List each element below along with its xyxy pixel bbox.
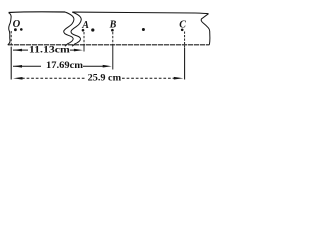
svg-text:17.69cm: 17.69cm	[46, 61, 83, 71]
extension line B upper	[112, 32, 114, 46]
svg-text:B: B	[109, 19, 117, 30]
extension line A upper	[83, 32, 85, 45]
tape break curve 1	[64, 12, 74, 46]
extension line O lower	[10, 47, 12, 80]
dot 6	[142, 28, 145, 31]
extension line A lower	[83, 45, 85, 52]
dim1 right arrow	[70, 49, 75, 51]
dot O	[14, 28, 17, 31]
extension line C upper	[184, 32, 186, 49]
svg-text:O: O	[13, 19, 21, 30]
dot 2	[20, 28, 23, 31]
extension line C lower	[184, 48, 186, 80]
dot A	[82, 29, 85, 32]
dim2 right arrow	[83, 65, 104, 67]
dim1 left arrow	[13, 49, 28, 51]
svg-text:25.9 cm: 25.9 cm	[88, 73, 122, 83]
tape break curve 2	[71, 12, 81, 46]
svg-text:11.13cm: 11.13cm	[29, 45, 70, 55]
dot C	[181, 29, 184, 32]
tape left torn edge	[8, 13, 11, 45]
dim2 left arrow	[13, 65, 41, 67]
tape bottom edge	[8, 44, 210, 46]
extension line B lower	[112, 46, 114, 70]
tape top edge left segment	[9, 11, 65, 14]
dot 4	[91, 28, 94, 31]
dim3 right arrow	[122, 77, 175, 79]
dot B	[111, 29, 114, 32]
extension line O upper	[10, 31, 12, 47]
tape top edge right segment	[72, 12, 208, 14]
tape right torn edge	[201, 14, 210, 45]
dim3 left arrow	[22, 77, 85, 79]
